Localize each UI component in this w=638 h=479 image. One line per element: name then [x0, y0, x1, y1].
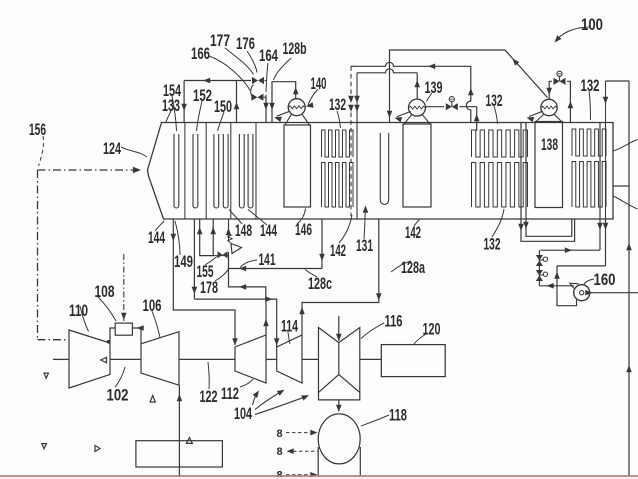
svg-text:128b: 128b	[283, 40, 307, 58]
svg-text:118: 118	[389, 407, 407, 425]
svg-text:146: 146	[295, 221, 312, 239]
svg-text:131: 131	[356, 237, 373, 255]
svg-text:114: 114	[281, 318, 299, 336]
svg-text:106: 106	[143, 297, 162, 315]
svg-text:128a: 128a	[401, 259, 426, 277]
svg-text:102: 102	[107, 387, 129, 405]
svg-text:120: 120	[423, 321, 441, 339]
svg-text:166: 166	[191, 45, 210, 63]
svg-text:128c: 128c	[308, 275, 332, 293]
svg-text:124: 124	[103, 140, 122, 158]
svg-text:132: 132	[581, 77, 600, 95]
svg-text:132: 132	[484, 236, 501, 254]
svg-text:116: 116	[385, 313, 403, 331]
svg-text:142: 142	[330, 242, 346, 260]
svg-text:104: 104	[234, 405, 253, 423]
svg-text:140: 140	[311, 75, 327, 93]
svg-text:100: 100	[581, 16, 603, 34]
svg-text:152: 152	[193, 87, 212, 105]
svg-text:149: 149	[174, 253, 193, 271]
svg-text:8: 8	[277, 428, 283, 440]
svg-text:177: 177	[210, 32, 230, 50]
svg-text:132: 132	[486, 92, 503, 110]
svg-text:144: 144	[148, 229, 166, 247]
svg-text:156: 156	[29, 121, 46, 139]
svg-text:176: 176	[236, 35, 255, 53]
svg-text:8: 8	[277, 446, 283, 458]
svg-text:108: 108	[95, 283, 115, 301]
svg-text:122: 122	[200, 388, 218, 406]
svg-text:112: 112	[221, 385, 239, 403]
svg-text:178: 178	[200, 279, 218, 297]
svg-text:142: 142	[405, 224, 421, 242]
svg-text:148: 148	[235, 222, 252, 240]
svg-text:141: 141	[259, 251, 276, 269]
svg-text:133: 133	[162, 97, 180, 115]
svg-text:144: 144	[260, 222, 278, 240]
svg-text:160: 160	[594, 271, 616, 289]
svg-text:139: 139	[425, 79, 443, 97]
svg-text:132: 132	[329, 96, 346, 114]
svg-text:110: 110	[69, 302, 88, 320]
svg-text:164: 164	[259, 47, 279, 65]
svg-text:138: 138	[541, 136, 558, 154]
svg-text:150: 150	[214, 98, 232, 116]
